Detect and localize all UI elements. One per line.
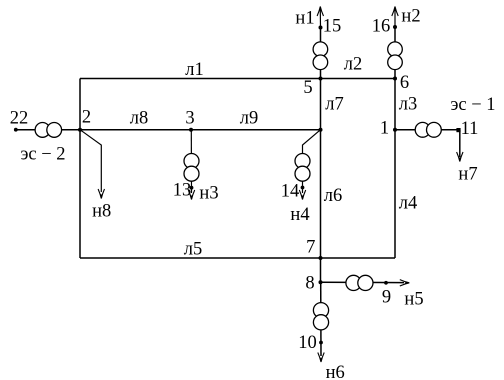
svg-text:н8: н8 (92, 201, 111, 221)
load arrow н7 head (457, 152, 463, 162)
node 8 (319, 280, 323, 284)
svg-text:7: 7 (306, 238, 315, 258)
svg-text:н2: н2 (401, 7, 420, 27)
svg-text:15: 15 (323, 17, 342, 37)
svg-text:л8: л8 (130, 109, 148, 129)
wire 16 up (н2 feeder) (394, 10, 396, 27)
node 22 (14, 128, 18, 132)
svg-text:л5: л5 (184, 240, 202, 260)
wire vertical 16-6-1 top (394, 27, 396, 79)
wire node8 right to 9 and arrow shaft (321, 281, 405, 283)
node 11 (456, 128, 460, 132)
svg-text:л6: л6 (324, 186, 342, 206)
wire 8 down to 10 (320, 282, 322, 356)
wire 1 to 11 (395, 129, 459, 131)
svg-text:эс − 1: эс − 1 (450, 95, 495, 115)
svg-text:22: 22 (10, 109, 29, 129)
wire node2 branch diagonal (80, 130, 101, 192)
svg-text:н1: н1 (295, 9, 314, 29)
node 4 (319, 128, 323, 132)
node 9 (384, 281, 388, 285)
svg-text:8: 8 (305, 274, 314, 294)
load arrow н5 head (400, 280, 410, 286)
node 16 (393, 25, 397, 29)
transformer T8 (8-10) (313, 303, 328, 330)
svg-text:н5: н5 (404, 290, 423, 310)
wire л5 bottom edge (80, 257, 395, 259)
transformer T7 (4-14) (295, 154, 310, 182)
transformer T3 (8-9) (346, 275, 373, 290)
svg-text:н3: н3 (199, 184, 218, 204)
svg-text:н6: н6 (326, 363, 345, 380)
node 3 (189, 128, 193, 132)
load arrow н6 head (318, 353, 324, 363)
node 6 (393, 77, 397, 81)
node 10 (319, 341, 323, 345)
node 14 (301, 186, 305, 190)
svg-text:6: 6 (400, 73, 409, 93)
transformer T2 (1-11) (415, 122, 441, 137)
svg-text:9: 9 (382, 288, 391, 308)
wire л1+л2 top edge (80, 78, 395, 80)
node 2 (78, 128, 82, 132)
transformer T5 (6-16) (388, 42, 403, 70)
node 7 (319, 256, 323, 260)
load arrow н3 head (188, 190, 194, 200)
wire 15 up (н1 feeder) (319, 10, 321, 28)
svg-text:л9: л9 (240, 109, 258, 129)
load arrow н4 head (299, 190, 305, 200)
svg-text:3: 3 (185, 109, 194, 129)
svg-text:эс − 2: эс − 2 (20, 145, 65, 165)
node 13 (190, 186, 194, 190)
svg-text:13: 13 (173, 181, 192, 201)
svg-text:11: 11 (461, 119, 479, 139)
svg-text:10: 10 (298, 333, 317, 353)
wire left edge of ring (79, 79, 81, 259)
transformer T6 (3-13) (184, 154, 199, 182)
wire main bus 22-2-3-4 (л8, л9) (16, 129, 321, 131)
wire л7/л6 vertical 15-5-4-7-8-10 (320, 28, 322, 283)
wire node3 branch down (190, 130, 192, 193)
svg-text:16: 16 (372, 17, 391, 37)
svg-text:л1: л1 (185, 60, 203, 80)
node 15 (319, 26, 323, 30)
svg-text:н7: н7 (458, 165, 477, 185)
wire л3+л4 right edge (394, 79, 396, 259)
svg-text:л4: л4 (399, 193, 417, 213)
svg-text:2: 2 (82, 108, 91, 128)
svg-text:л7: л7 (325, 95, 343, 115)
node 5 (319, 77, 323, 81)
wire node4 branch diagonal (303, 130, 321, 193)
wire 11 down (н7 feeder) (459, 130, 461, 157)
svg-text:н4: н4 (290, 205, 309, 225)
svg-text:л2: л2 (344, 55, 362, 75)
svg-text:л3: л3 (399, 95, 417, 115)
svg-text:5: 5 (303, 78, 312, 98)
transformer T4 (5-15) (313, 42, 328, 70)
svg-text:14: 14 (281, 182, 300, 202)
load arrow н8 head (98, 189, 104, 199)
load arrow н1 head (317, 7, 323, 17)
svg-text:1: 1 (380, 119, 389, 139)
transformer T1 (22-2) (35, 122, 62, 137)
node 1 (393, 128, 397, 132)
load arrow н2 head (392, 7, 398, 17)
